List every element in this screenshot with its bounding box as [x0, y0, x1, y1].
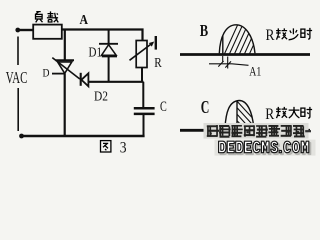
svg-text:A: A [80, 12, 89, 27]
svg-text:A1: A1 [249, 63, 261, 78]
svg-text:D1: D1 [89, 45, 103, 60]
svg-text:R: R [266, 27, 275, 44]
svg-text:C: C [160, 99, 167, 115]
svg-text:D2: D2 [94, 89, 108, 104]
svg-text:3: 3 [120, 139, 127, 156]
svg-text:D: D [43, 68, 50, 80]
svg-text:B: B [200, 21, 208, 40]
svg-text:VAC: VAC [6, 68, 28, 87]
svg-text:R: R [265, 106, 274, 123]
svg-text:C: C [201, 97, 210, 117]
svg-text:R: R [154, 55, 162, 70]
